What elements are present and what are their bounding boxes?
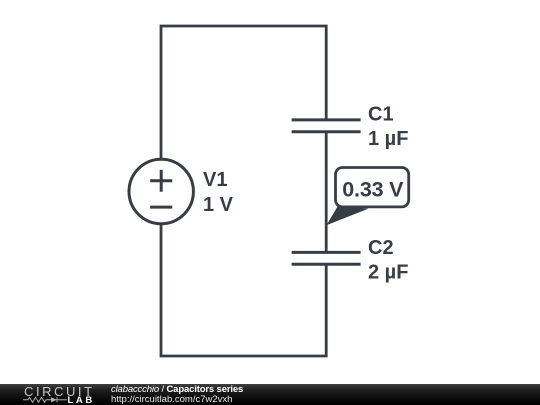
wire lower loop: V1 minus terminal to C2 bottom [161,224,326,356]
wire middle (node between C1 and C2) [325,132,328,253]
wire upper loop: C1 top to V1 plus terminal [161,26,326,159]
capacitor C1 [292,120,361,132]
CircuitLab logo [0,384,110,405]
svg-text:V1: V1 [203,169,227,191]
voltage annotation callout tail [326,206,368,225]
footer bar [0,384,540,405]
voltage annotation callout box [336,168,409,207]
svg-text:2 µF: 2 µF [368,262,408,284]
footer line 1 [111,384,243,395]
svg-text:LAB: LAB [68,395,95,405]
footer line 2 [111,394,232,405]
voltage source V1 [129,159,193,223]
capacitor C2 [292,252,361,264]
svg-text:C2: C2 [368,237,394,259]
svg-text:C1: C1 [368,103,394,125]
logo resistor-diode glyph [23,397,67,402]
svg-text:1 V: 1 V [203,194,234,216]
svg-text:1 µF: 1 µF [368,128,408,150]
svg-text:0.33 V: 0.33 V [342,177,404,201]
